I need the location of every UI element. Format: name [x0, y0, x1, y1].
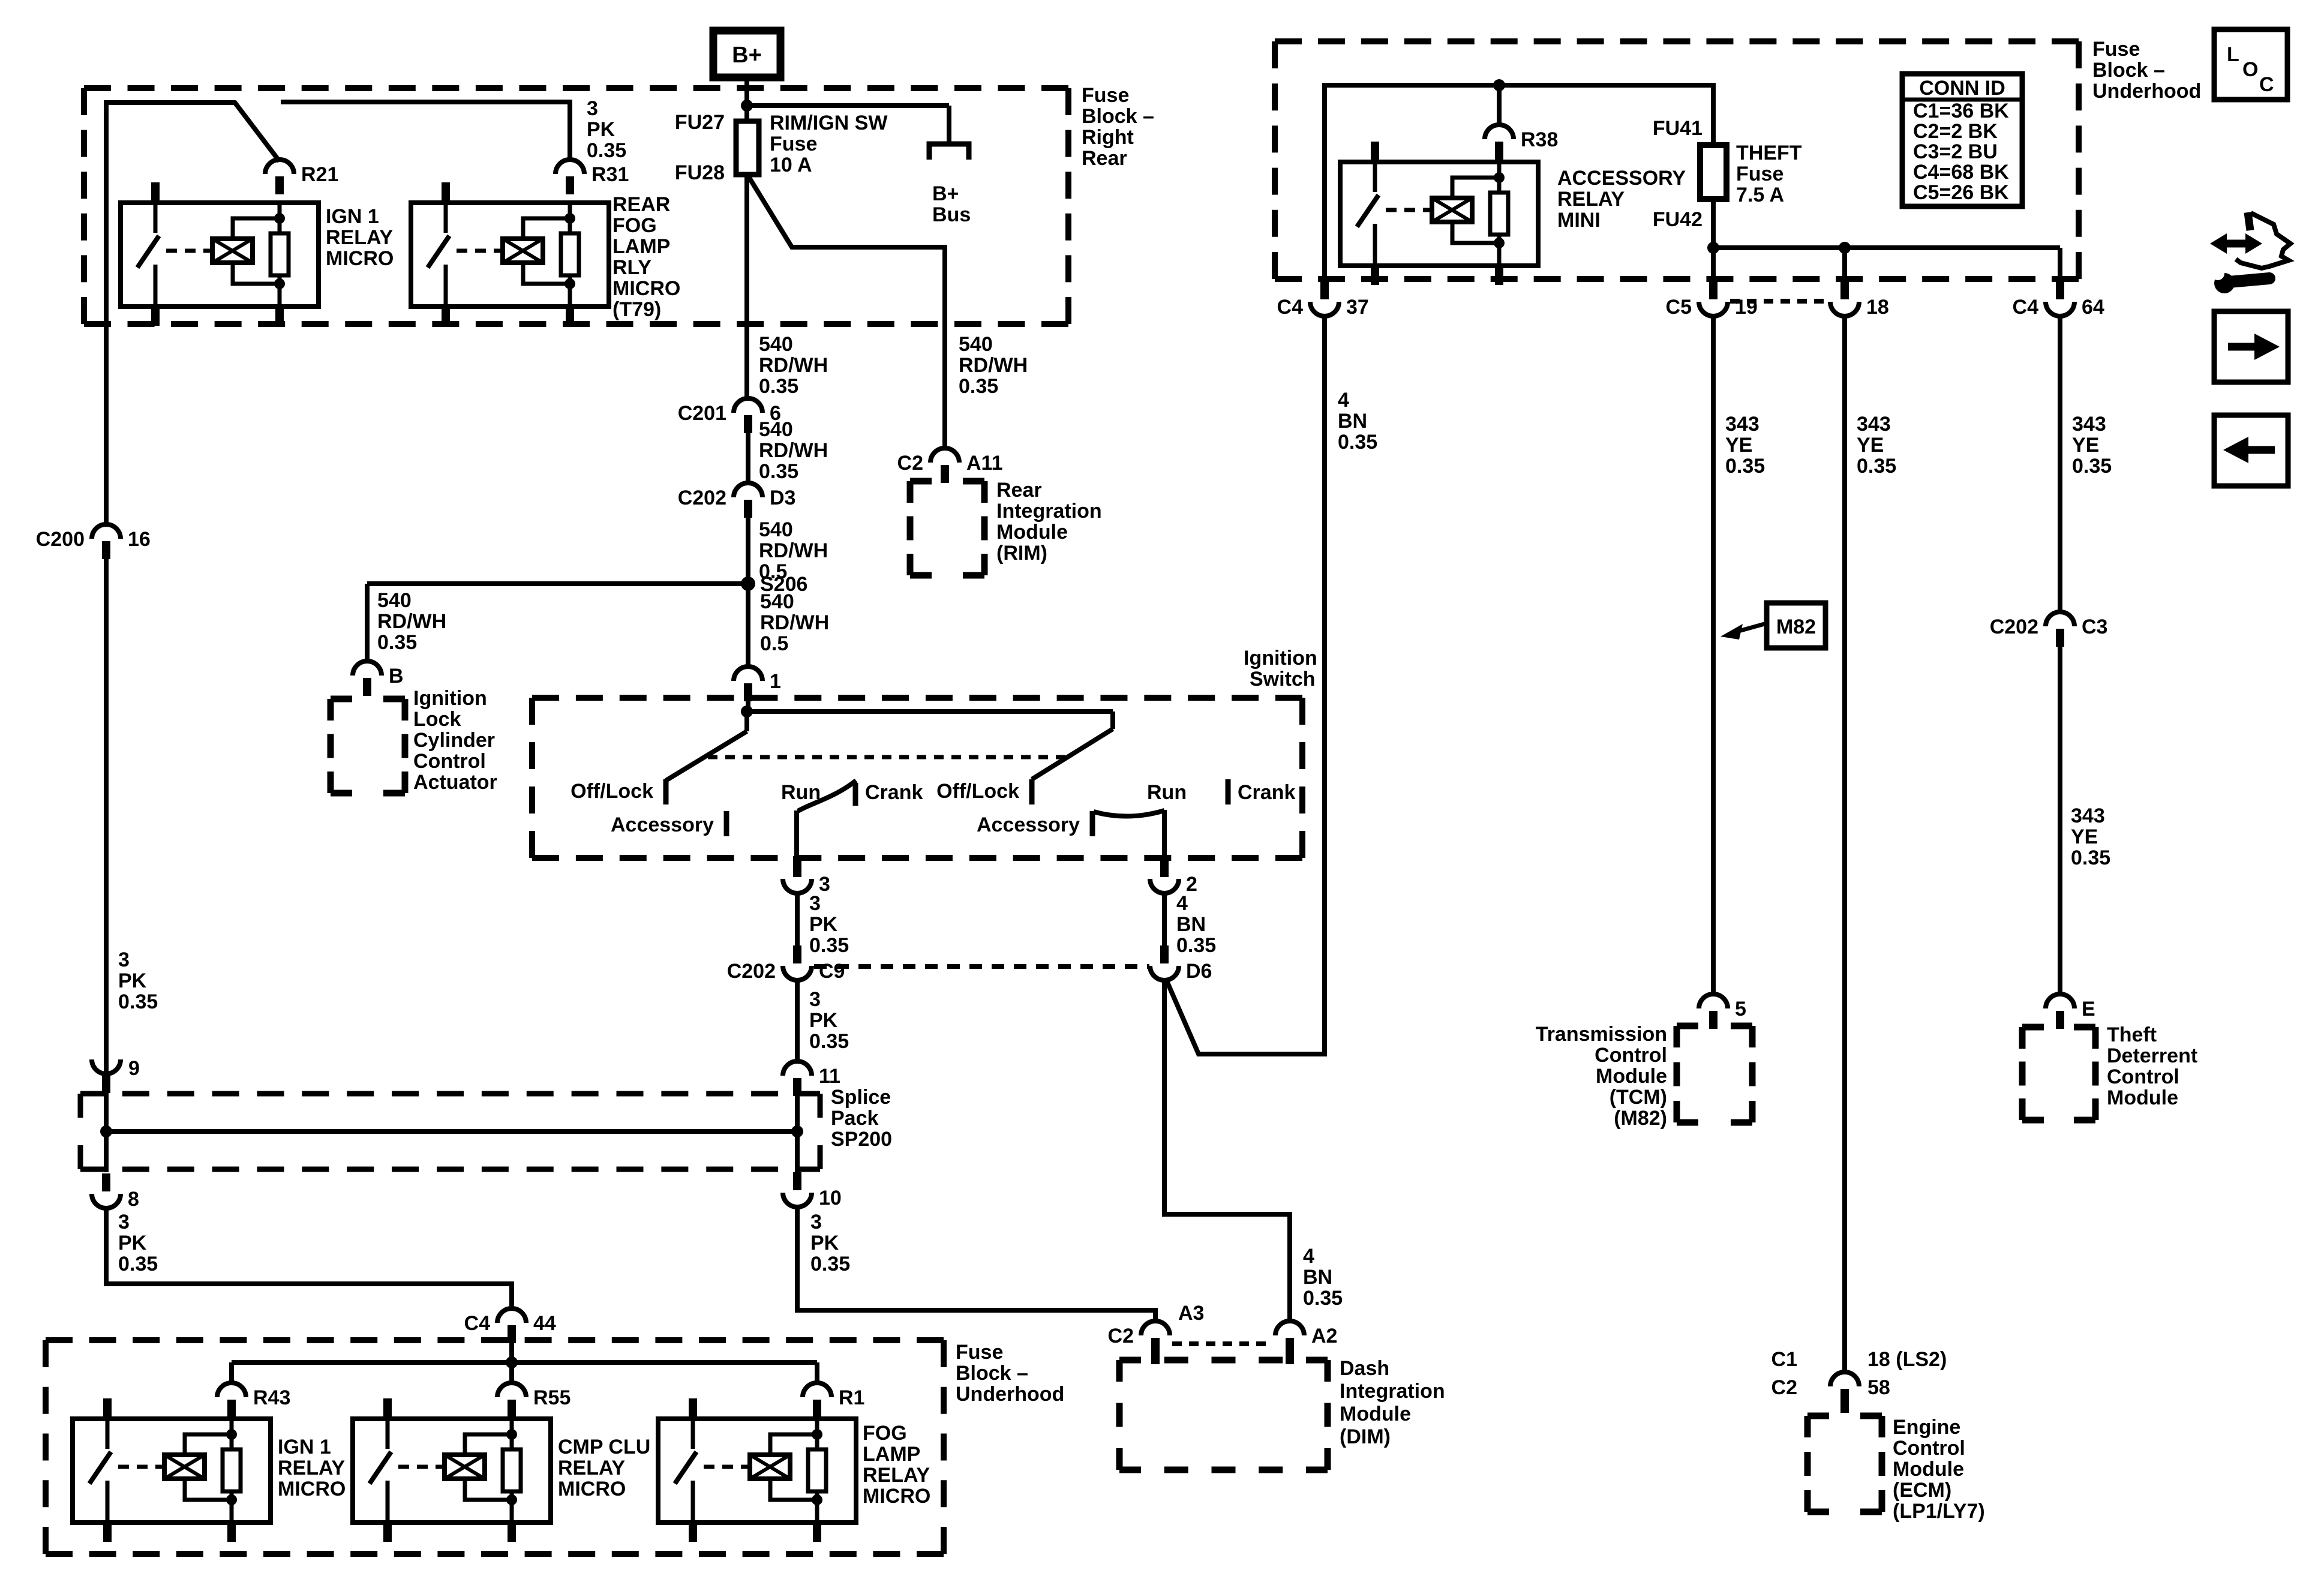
connector C201 6	[734, 398, 762, 413]
connector 10	[783, 1193, 812, 1207]
relay R1 link	[704, 1465, 748, 1469]
svg-text:D6: D6	[1186, 960, 1212, 983]
svg-text:BN: BN	[1303, 1266, 1332, 1289]
wire 18 to ECM	[1842, 316, 1847, 1373]
relay R55 box	[353, 1419, 551, 1523]
connector 3	[793, 856, 801, 877]
wire R38 drop	[1497, 85, 1502, 127]
svg-text:0.35: 0.35	[118, 990, 158, 1013]
svg-text:RELAY: RELAY	[863, 1464, 930, 1487]
svg-text:Dash: Dash	[1340, 1357, 1389, 1380]
relay R55 link	[398, 1465, 443, 1469]
svg-text:3: 3	[809, 892, 821, 915]
svg-text:Accessory: Accessory	[611, 813, 714, 836]
relay R1 coil	[750, 1455, 790, 1479]
svg-text:Pack: Pack	[831, 1107, 878, 1130]
svg-text:C4: C4	[1277, 296, 1304, 319]
relay R38 resistor	[1497, 162, 1502, 193]
svg-text:C2: C2	[1771, 1376, 1797, 1399]
wire B+ down	[744, 77, 749, 122]
svg-text:B: B	[389, 665, 404, 688]
switch pole 2 output wire	[1162, 810, 1167, 857]
B+ terminal box	[713, 31, 780, 77]
switch pole 1 crank contact	[853, 783, 858, 806]
svg-text:A3: A3	[1178, 1302, 1204, 1325]
splice pack SP200 dashed box	[80, 1091, 104, 1097]
svg-text:Engine: Engine	[1893, 1416, 1960, 1439]
relay R31 resistor	[568, 203, 572, 233]
svg-text:C5=26 BK: C5=26 BK	[1913, 181, 2009, 204]
svg-text:MICRO: MICRO	[612, 277, 680, 300]
svg-text:540: 540	[760, 590, 794, 613]
svg-text:PK: PK	[118, 969, 147, 992]
svg-text:FOG: FOG	[863, 1422, 907, 1445]
svg-text:343: 343	[1857, 413, 1891, 436]
wire theft bus	[1713, 245, 2060, 250]
svg-text:343: 343	[2071, 804, 2105, 827]
svg-text:Fuse: Fuse	[770, 133, 817, 155]
svg-text:FOG: FOG	[612, 214, 657, 237]
svg-text:RD/WH: RD/WH	[760, 611, 829, 634]
svg-text:C4=68 BK: C4=68 BK	[1913, 161, 2009, 184]
svg-text:Control: Control	[1595, 1044, 1667, 1067]
svg-text:18: 18	[1866, 296, 1889, 319]
svg-text:44: 44	[533, 1312, 556, 1335]
wire left vertical to C200	[104, 100, 109, 527]
svg-text:9: 9	[128, 1057, 140, 1080]
svg-text:R21: R21	[301, 163, 338, 186]
relay R38 switch	[1373, 162, 1377, 192]
svg-text:R38: R38	[1521, 128, 1558, 151]
connector C2 A3	[1141, 1321, 1170, 1335]
svg-text:3: 3	[118, 1211, 130, 1233]
right arrow legend box	[2214, 311, 2288, 382]
wire D6 feed from C4-37	[1166, 316, 1325, 1054]
left arrow legend box	[2214, 415, 2288, 486]
svg-text:CMP CLU: CMP CLU	[558, 1436, 650, 1458]
relay R21 pin stubs	[151, 182, 160, 203]
wire 11 to 10	[795, 1096, 800, 1172]
svg-text:Rear: Rear	[1082, 147, 1127, 170]
relay R43 resistor	[230, 1419, 234, 1449]
svg-text:A11: A11	[966, 452, 1003, 475]
svg-text:0.35: 0.35	[118, 1253, 158, 1275]
wire top-left horizontal	[106, 100, 235, 105]
junction dot SP200 right	[791, 1125, 803, 1137]
wire diagonal from FU28	[748, 176, 945, 448]
relay R21 link	[166, 249, 211, 253]
svg-text:PK: PK	[809, 1009, 838, 1032]
svg-text:YE: YE	[1725, 434, 1752, 457]
LOC legend box	[2214, 29, 2287, 100]
svg-text:64: 64	[2082, 296, 2104, 319]
svg-text:RD/WH: RD/WH	[759, 539, 828, 562]
wire 2 to D6	[1162, 893, 1167, 946]
svg-text:IGN 1: IGN 1	[278, 1436, 331, 1458]
svg-text:C202: C202	[678, 487, 726, 509]
svg-text:Underhood: Underhood	[956, 1383, 1064, 1406]
svg-text:(ECM): (ECM)	[1893, 1479, 1951, 1502]
connector R43	[217, 1383, 246, 1397]
svg-text:C4: C4	[464, 1312, 491, 1335]
svg-text:Ignition: Ignition	[1244, 647, 1317, 670]
switch pole 1 run-crank curve	[798, 781, 856, 811]
relay R1 box	[658, 1419, 856, 1523]
svg-text:C3=2 BU: C3=2 BU	[1913, 140, 1998, 163]
svg-text:Theft: Theft	[2107, 1023, 2157, 1046]
svg-text:R43: R43	[253, 1386, 290, 1409]
connector R21	[265, 160, 294, 174]
svg-text:Integration: Integration	[1340, 1380, 1445, 1403]
fuse block right rear dashed box	[84, 85, 111, 91]
svg-text:Run: Run	[781, 781, 821, 804]
wire into switch	[746, 701, 750, 714]
svg-text:0.35: 0.35	[759, 460, 798, 483]
svg-text:0.35: 0.35	[1338, 431, 1377, 454]
svg-text:SP200: SP200	[831, 1128, 892, 1151]
svg-text:RD/WH: RD/WH	[959, 354, 1028, 377]
rear integration module box	[910, 478, 932, 485]
svg-text:10: 10	[819, 1187, 842, 1209]
relay R1 resistor	[815, 1419, 819, 1449]
svg-text:3: 3	[118, 948, 130, 971]
dotted line C9 to D6	[814, 964, 1149, 969]
M82 arrow	[1739, 623, 1767, 631]
svg-text:16: 16	[128, 528, 151, 551]
svg-text:Splice: Splice	[831, 1086, 891, 1109]
svg-text:Switch: Switch	[1250, 668, 1316, 691]
svg-text:RD/WH: RD/WH	[759, 439, 828, 462]
wire D3 to S206 to 1	[746, 518, 750, 667]
relay R31 coil	[503, 239, 543, 263]
connector 11	[783, 1061, 812, 1076]
svg-text:Ignition: Ignition	[413, 687, 487, 710]
svg-text:4: 4	[1338, 389, 1349, 412]
wire C9 to 11	[795, 980, 800, 1062]
fuse block underhood (bottom) dashed box	[46, 1337, 73, 1343]
svg-text:Integration: Integration	[996, 500, 1102, 523]
svg-text:343: 343	[2072, 413, 2106, 436]
svg-text:58: 58	[1867, 1376, 1890, 1399]
wire FU42 down	[1711, 199, 1716, 280]
svg-text:MICRO: MICRO	[278, 1478, 346, 1500]
svg-text:0.35: 0.35	[2072, 455, 2112, 478]
connector C4 37	[1310, 302, 1339, 316]
wire C5-19 to TCM	[1711, 316, 1716, 995]
wire to R43	[229, 1362, 234, 1384]
svg-text:R1: R1	[839, 1386, 864, 1409]
CONN ID table	[1902, 74, 2022, 206]
relay R38 box	[1340, 162, 1538, 266]
connector 8	[92, 1194, 121, 1208]
svg-text:540: 540	[759, 518, 793, 541]
switch pole 2 blade	[1110, 712, 1115, 729]
switch pole 1 blade	[744, 712, 749, 731]
relay R21 box	[121, 203, 319, 307]
switch pole 2 accessory contact	[1090, 811, 1095, 836]
svg-text:Crank: Crank	[1238, 781, 1295, 804]
connector 18	[1830, 302, 1859, 316]
svg-text:5: 5	[1735, 998, 1746, 1020]
wire 18 drop	[1842, 248, 1847, 280]
B+ bus bar symbol	[929, 144, 969, 160]
svg-text:RELAY: RELAY	[1557, 188, 1625, 211]
svg-text:FU41: FU41	[1653, 117, 1703, 140]
svg-text:FU42: FU42	[1653, 208, 1703, 231]
svg-text:LAMP: LAMP	[863, 1443, 920, 1466]
wire to R31 horizontal	[281, 100, 570, 104]
svg-text:Accessory: Accessory	[977, 813, 1080, 836]
wire 8 to C4-44	[106, 1208, 512, 1310]
wire C3 to E	[2058, 647, 2062, 995]
svg-text:C2: C2	[1108, 1325, 1134, 1347]
svg-text:Actuator: Actuator	[413, 771, 497, 794]
dotted line 19 to 18	[1730, 299, 1828, 304]
wire C4-64 drop	[2058, 248, 2062, 280]
svg-text:Module: Module	[996, 521, 1068, 544]
connector C4 64	[2046, 302, 2074, 316]
svg-text:R31: R31	[591, 163, 629, 186]
svg-text:IGN 1: IGN 1	[326, 205, 379, 228]
svg-text:D3: D3	[770, 487, 795, 509]
svg-text:C3: C3	[2082, 616, 2107, 638]
wire 3 to C9	[795, 893, 800, 946]
connector D6	[1150, 966, 1179, 980]
relay R1 switch	[691, 1419, 695, 1449]
wire to R55	[509, 1362, 514, 1384]
svg-text:C201: C201	[678, 402, 726, 425]
wire switch crossbar	[747, 709, 1113, 714]
svg-text:0.35: 0.35	[959, 375, 998, 398]
svg-text:RELAY: RELAY	[278, 1457, 345, 1479]
theft deterrent control module box	[2022, 1024, 2044, 1031]
junction dot R38 feed	[1493, 79, 1505, 91]
bottom relay feed bus	[232, 1360, 817, 1365]
connector B	[353, 661, 382, 676]
relay R38 link	[1386, 208, 1430, 212]
fuse block underhood (top) dashed box	[1275, 38, 1302, 44]
svg-text:CONN ID: CONN ID	[1919, 77, 2005, 100]
connector C202 C9	[783, 966, 812, 980]
splice S206	[741, 577, 755, 591]
svg-text:B+: B+	[932, 182, 959, 205]
relay R31 switch	[444, 203, 448, 233]
switch gang dashed link	[708, 755, 1069, 760]
wire 10 to A3	[797, 1207, 1155, 1322]
svg-text:Crank: Crank	[865, 781, 923, 804]
connector 5	[1699, 994, 1728, 1008]
hood/wrench icon	[2210, 233, 2227, 254]
svg-text:4: 4	[1176, 892, 1188, 915]
engine control module box	[1807, 1413, 1829, 1419]
connector C200 16	[92, 524, 121, 539]
svg-text:(TCM): (TCM)	[1610, 1086, 1667, 1109]
svg-text:540: 540	[959, 333, 993, 356]
svg-text:Deterrent: Deterrent	[2107, 1044, 2197, 1067]
connector R55	[497, 1383, 526, 1397]
svg-text:C202: C202	[1990, 616, 2038, 638]
svg-text:MICRO: MICRO	[558, 1478, 626, 1500]
svg-text:0.35: 0.35	[377, 631, 417, 654]
svg-text:Fuse: Fuse	[1082, 84, 1129, 107]
connector E	[2046, 994, 2074, 1008]
connector 2	[1160, 856, 1169, 877]
relay R38 coil	[1432, 198, 1472, 222]
svg-text:Block –: Block –	[2092, 59, 2165, 82]
svg-text:Control: Control	[1893, 1437, 1965, 1460]
wire diagonal to R21	[234, 101, 280, 161]
junction dot switch input	[741, 706, 753, 718]
svg-text:0.35: 0.35	[1303, 1287, 1343, 1310]
svg-text:7.5 A: 7.5 A	[1736, 184, 1784, 206]
svg-text:37: 37	[1346, 296, 1369, 319]
relay R1 pin stubs	[689, 1398, 697, 1419]
svg-text:REAR: REAR	[612, 193, 670, 216]
svg-text:M82: M82	[1776, 616, 1816, 638]
wire D6 down to A2	[1164, 980, 1290, 1322]
svg-text:BN: BN	[1338, 410, 1367, 433]
svg-text:Fuse: Fuse	[956, 1341, 1003, 1364]
wire 8 from SP200	[104, 1131, 109, 1172]
svg-text:THEFT: THEFT	[1736, 142, 1802, 164]
svg-text:C2=2 BK: C2=2 BK	[1913, 120, 1998, 143]
svg-text:540: 540	[377, 589, 412, 612]
junction dot bottom fuse block	[506, 1356, 518, 1368]
wire C201 to C202	[746, 433, 750, 484]
svg-text:(M82): (M82)	[1614, 1107, 1667, 1130]
svg-text:Fuse: Fuse	[2092, 38, 2140, 61]
svg-text:RELAY: RELAY	[326, 226, 393, 249]
svg-text:Lock: Lock	[413, 708, 461, 731]
connector C2 A11	[930, 448, 959, 463]
svg-text:Module: Module	[1340, 1403, 1411, 1425]
svg-text:RD/WH: RD/WH	[759, 354, 828, 377]
svg-text:0.35: 0.35	[1176, 934, 1216, 957]
svg-text:C1=36 BK: C1=36 BK	[1913, 100, 2009, 122]
svg-text:Block –: Block –	[956, 1362, 1028, 1385]
svg-text:1: 1	[770, 670, 781, 693]
svg-text:MINI: MINI	[1557, 209, 1601, 232]
svg-text:RD/WH: RD/WH	[377, 610, 446, 633]
switch pole 1 off/lock contact	[663, 779, 669, 804]
svg-text:10 A: 10 A	[770, 154, 812, 176]
wire 44 to junction	[509, 1343, 514, 1364]
svg-text:Rear: Rear	[996, 479, 1042, 502]
svg-text:R55: R55	[533, 1386, 571, 1409]
svg-text:YE: YE	[1857, 434, 1884, 457]
svg-text:E: E	[2082, 998, 2095, 1020]
wire C4-64 to C202-C3	[2058, 316, 2062, 612]
svg-text:Control: Control	[413, 750, 486, 773]
svg-text:3: 3	[809, 988, 821, 1011]
junction dot SP200 left	[100, 1125, 112, 1137]
svg-text:MICRO: MICRO	[863, 1485, 930, 1508]
svg-text:FU28: FU28	[675, 161, 725, 184]
svg-text:11: 11	[819, 1065, 840, 1088]
svg-text:O: O	[2242, 58, 2258, 81]
svg-text:Module: Module	[1893, 1458, 1964, 1481]
wire 9 into SP200	[104, 1093, 109, 1131]
dotted line A3 to A2	[1172, 1341, 1273, 1346]
connector 1	[734, 667, 762, 681]
relay R55 switch	[386, 1419, 390, 1449]
relay R31 pin stubs	[442, 182, 450, 203]
ignition lock cylinder control actuator box	[331, 696, 352, 703]
svg-text:ACCESSORY: ACCESSORY	[1557, 167, 1686, 190]
switch pole 1 accessory contact	[724, 811, 729, 836]
wire fuse down to C201	[744, 175, 749, 398]
connector C4 44	[497, 1308, 526, 1323]
svg-text:(T79): (T79)	[612, 298, 661, 321]
relay R31 box	[411, 203, 609, 307]
svg-text:YE: YE	[2071, 825, 2098, 848]
switch pole 2 off/lock contact	[1029, 779, 1035, 804]
svg-text:0.35: 0.35	[587, 139, 626, 162]
svg-text:Right: Right	[1082, 126, 1134, 149]
svg-text:0.35: 0.35	[809, 1030, 849, 1053]
relay R21 coil	[212, 239, 253, 263]
wire branch to B+ bus	[747, 103, 949, 108]
svg-text:0.35: 0.35	[1725, 455, 1765, 478]
svg-text:RLY: RLY	[612, 256, 651, 279]
svg-text:C202: C202	[727, 960, 776, 983]
relay R55 pin stubs	[383, 1398, 392, 1419]
relay R43 switch	[106, 1419, 110, 1449]
svg-text:A2: A2	[1311, 1325, 1337, 1347]
junction dot FU42	[1707, 242, 1719, 254]
wire S206 branch left	[367, 581, 748, 586]
svg-text:MICRO: MICRO	[326, 247, 394, 270]
switch pole 2 crank contact	[1226, 779, 1231, 804]
svg-text:18 (LS2): 18 (LS2)	[1867, 1348, 1947, 1371]
svg-text:Run: Run	[1147, 781, 1187, 804]
svg-text:C200: C200	[36, 528, 85, 551]
svg-text:Block –: Block –	[1082, 105, 1154, 128]
connector R1	[803, 1383, 831, 1397]
svg-text:Control: Control	[2107, 1065, 2179, 1088]
svg-text:0.35: 0.35	[810, 1253, 850, 1275]
ignition switch dashed box	[532, 695, 559, 701]
junction dot below B+	[741, 100, 753, 112]
svg-text:RIM/IGN SW: RIM/IGN SW	[770, 112, 888, 134]
svg-text:540: 540	[759, 418, 793, 441]
svg-text:(LP1/LY7): (LP1/LY7)	[1893, 1500, 1985, 1523]
svg-text:Off/Lock: Off/Lock	[936, 780, 1019, 803]
relay R55 coil	[445, 1455, 485, 1479]
svg-text:C5: C5	[1666, 296, 1692, 319]
svg-text:Underhood: Underhood	[2092, 80, 2201, 103]
svg-text:PK: PK	[587, 118, 615, 141]
switch pole 1 output wire	[794, 810, 799, 857]
svg-text:0.5: 0.5	[760, 632, 788, 655]
svg-text:0.35: 0.35	[2071, 846, 2110, 869]
svg-text:540: 540	[759, 333, 793, 356]
svg-text:C2: C2	[897, 452, 923, 475]
svg-text:LAMP: LAMP	[612, 235, 670, 258]
relay R55 resistor	[510, 1419, 514, 1449]
fuse FU27/FU28 RIM/IGN SW	[736, 121, 759, 175]
svg-text:C4: C4	[2013, 296, 2039, 319]
connector R31	[556, 160, 584, 174]
svg-text:Fuse: Fuse	[1736, 163, 1783, 185]
underhood feed wire	[1325, 85, 1713, 279]
svg-text:(RIM): (RIM)	[996, 542, 1047, 565]
wire to R1	[815, 1362, 819, 1384]
svg-text:3: 3	[587, 97, 598, 120]
svg-text:FU27: FU27	[675, 111, 725, 134]
svg-text:0.35: 0.35	[759, 375, 798, 398]
svg-text:Off/Lock: Off/Lock	[571, 780, 653, 803]
